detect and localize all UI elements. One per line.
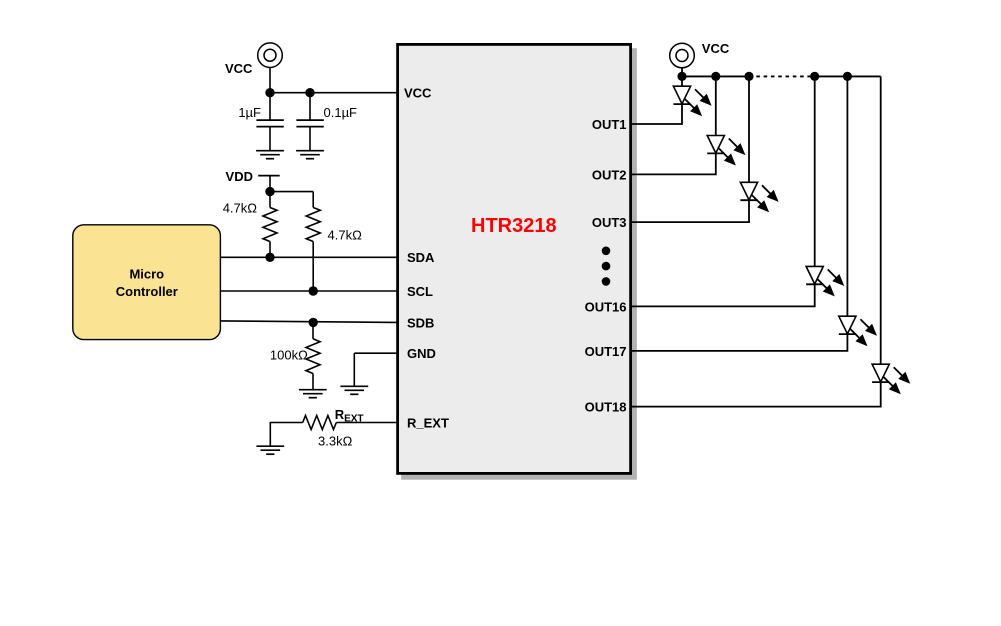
wire R1 bottom to SDA xyxy=(269,242,271,258)
wire VCC to C1 top plate xyxy=(269,93,271,120)
svg-text:OUT2: OUT2 xyxy=(592,167,627,182)
junction at C1/VCC xyxy=(265,88,274,97)
ellipsis dot 3 xyxy=(602,277,611,286)
svg-text:4.7kΩ: 4.7kΩ xyxy=(223,201,258,216)
svg-text:SDB: SDB xyxy=(407,315,434,330)
ground below R3 xyxy=(299,390,327,398)
svg-text:OUT17: OUT17 xyxy=(585,344,627,359)
wire from VCC rail to LED2 anode xyxy=(715,76,717,136)
rail junction 4 xyxy=(810,72,819,81)
wire VDD junction to R2 top xyxy=(270,191,313,193)
rail junction 5 xyxy=(843,72,852,81)
svg-text:Controller: Controller xyxy=(116,284,178,299)
svg-text:REXT: REXT xyxy=(335,407,364,425)
junction at VDD xyxy=(265,187,274,196)
wire VCC connector to rail xyxy=(269,68,271,93)
wire R_EXT pin to R4 xyxy=(336,422,397,424)
svg-text:VCC: VCC xyxy=(702,41,730,56)
junction at C2/VCC xyxy=(305,88,314,97)
ground below C1 xyxy=(256,151,284,159)
wire VDD to R1 top xyxy=(269,192,271,208)
wire from VCC rail to LED18 anode xyxy=(880,76,882,365)
wire C1 bottom plate to ground xyxy=(269,127,271,151)
wire from VCC rail to LED1 anode xyxy=(681,76,683,87)
LED LED16 xyxy=(806,266,844,296)
wire from LED2 cathode to OUT2 pin xyxy=(632,153,716,174)
resistor R4 R_EXT 3.3k xyxy=(303,416,337,430)
wire from LED17 cathode to OUT17 pin xyxy=(632,334,847,351)
svg-text:R_EXT: R_EXT xyxy=(407,415,449,430)
svg-text:GND: GND xyxy=(407,346,436,361)
svg-text:4.7kΩ: 4.7kΩ xyxy=(328,228,363,243)
wire VCC rail to IC VCC pin xyxy=(269,92,397,94)
LED LED1 xyxy=(673,86,711,116)
wire from LED18 cathode to OUT18 pin xyxy=(632,382,881,407)
wire from VCC rail to LED17 anode xyxy=(846,76,848,317)
capacitor C1 1uF xyxy=(256,120,283,127)
wire from LED16 cathode to OUT16 pin xyxy=(632,284,815,306)
LED LED17 xyxy=(839,316,877,346)
LED LED2 xyxy=(707,136,745,166)
wire corner down to ground xyxy=(269,423,271,447)
LED LED3 xyxy=(740,182,778,212)
wire VCC connector to rail (right) xyxy=(681,68,683,77)
wire C2 bottom plate to ground xyxy=(309,127,311,151)
wire R4 to corner xyxy=(270,422,303,424)
ground below R4 xyxy=(256,446,284,454)
rail junction 1 xyxy=(677,72,686,81)
junction SDB/R3 xyxy=(309,318,318,327)
svg-text:OUT1: OUT1 xyxy=(592,117,627,132)
VCC rail dashed segment xyxy=(749,75,815,77)
ground below C2 xyxy=(296,151,324,159)
wire SDB xyxy=(221,321,398,323)
rail junction 2 xyxy=(711,72,720,81)
svg-text:Micro: Micro xyxy=(129,266,164,281)
svg-text:1µF: 1µF xyxy=(238,105,261,120)
svg-text:OUT3: OUT3 xyxy=(592,215,627,230)
VCC rail segment 1 xyxy=(682,75,749,77)
wire VDD bar down to junction xyxy=(269,176,271,192)
capacitor C2 0.1uF xyxy=(296,120,323,127)
wire SCL xyxy=(221,290,398,292)
svg-text:VDD: VDD xyxy=(226,169,253,184)
wire from LED3 cathode to OUT3 pin xyxy=(632,200,749,222)
svg-text:100kΩ: 100kΩ xyxy=(270,348,308,363)
ground at GND pin xyxy=(340,386,368,394)
wire R2 bottom to SCL xyxy=(312,242,314,292)
wire from VCC rail to LED16 anode xyxy=(814,76,816,267)
VDD supply bar xyxy=(258,175,280,177)
wire from LED1 cathode to OUT1 pin xyxy=(632,104,682,124)
LED LED18 xyxy=(872,364,910,394)
resistor R1 4.7k xyxy=(263,208,277,242)
wire GND pin xyxy=(354,352,397,354)
micro controller block xyxy=(73,225,221,340)
rail junction 3 xyxy=(744,72,753,81)
wire GND down xyxy=(353,353,355,386)
svg-text:0.1µF: 0.1µF xyxy=(324,105,358,120)
junction R1/SDA xyxy=(265,253,274,262)
wire R3 bottom to ground xyxy=(312,374,314,390)
resistor R3 100k xyxy=(306,339,320,374)
svg-text:HTR3218: HTR3218 xyxy=(471,215,557,237)
wire SDB junction to R3 top xyxy=(312,322,314,338)
IC U1 HTR3218 body xyxy=(398,44,631,473)
VCC supply connector (right) xyxy=(670,43,695,68)
ellipsis dot 1 xyxy=(602,247,611,256)
VCC rail segment 2 xyxy=(815,75,881,77)
VCC supply connector (left) xyxy=(258,43,283,68)
wire SDA xyxy=(221,256,398,258)
svg-text:VCC: VCC xyxy=(225,61,253,76)
svg-text:SDA: SDA xyxy=(407,250,435,265)
IC U1 drop shadow xyxy=(401,48,637,480)
svg-text:OUT18: OUT18 xyxy=(585,400,627,415)
svg-text:OUT16: OUT16 xyxy=(585,299,627,314)
wire from VCC rail to LED3 anode xyxy=(748,76,750,183)
resistor R2 4.7k xyxy=(306,208,320,242)
wire R2 top stem xyxy=(312,192,314,208)
junction R2/SCL xyxy=(309,286,318,295)
svg-text:3.3kΩ: 3.3kΩ xyxy=(318,434,353,449)
wire VCC to C2 top plate xyxy=(309,93,311,120)
svg-text:VCC: VCC xyxy=(404,86,432,101)
ellipsis dot 2 xyxy=(602,262,611,271)
svg-text:SCL: SCL xyxy=(407,284,433,299)
